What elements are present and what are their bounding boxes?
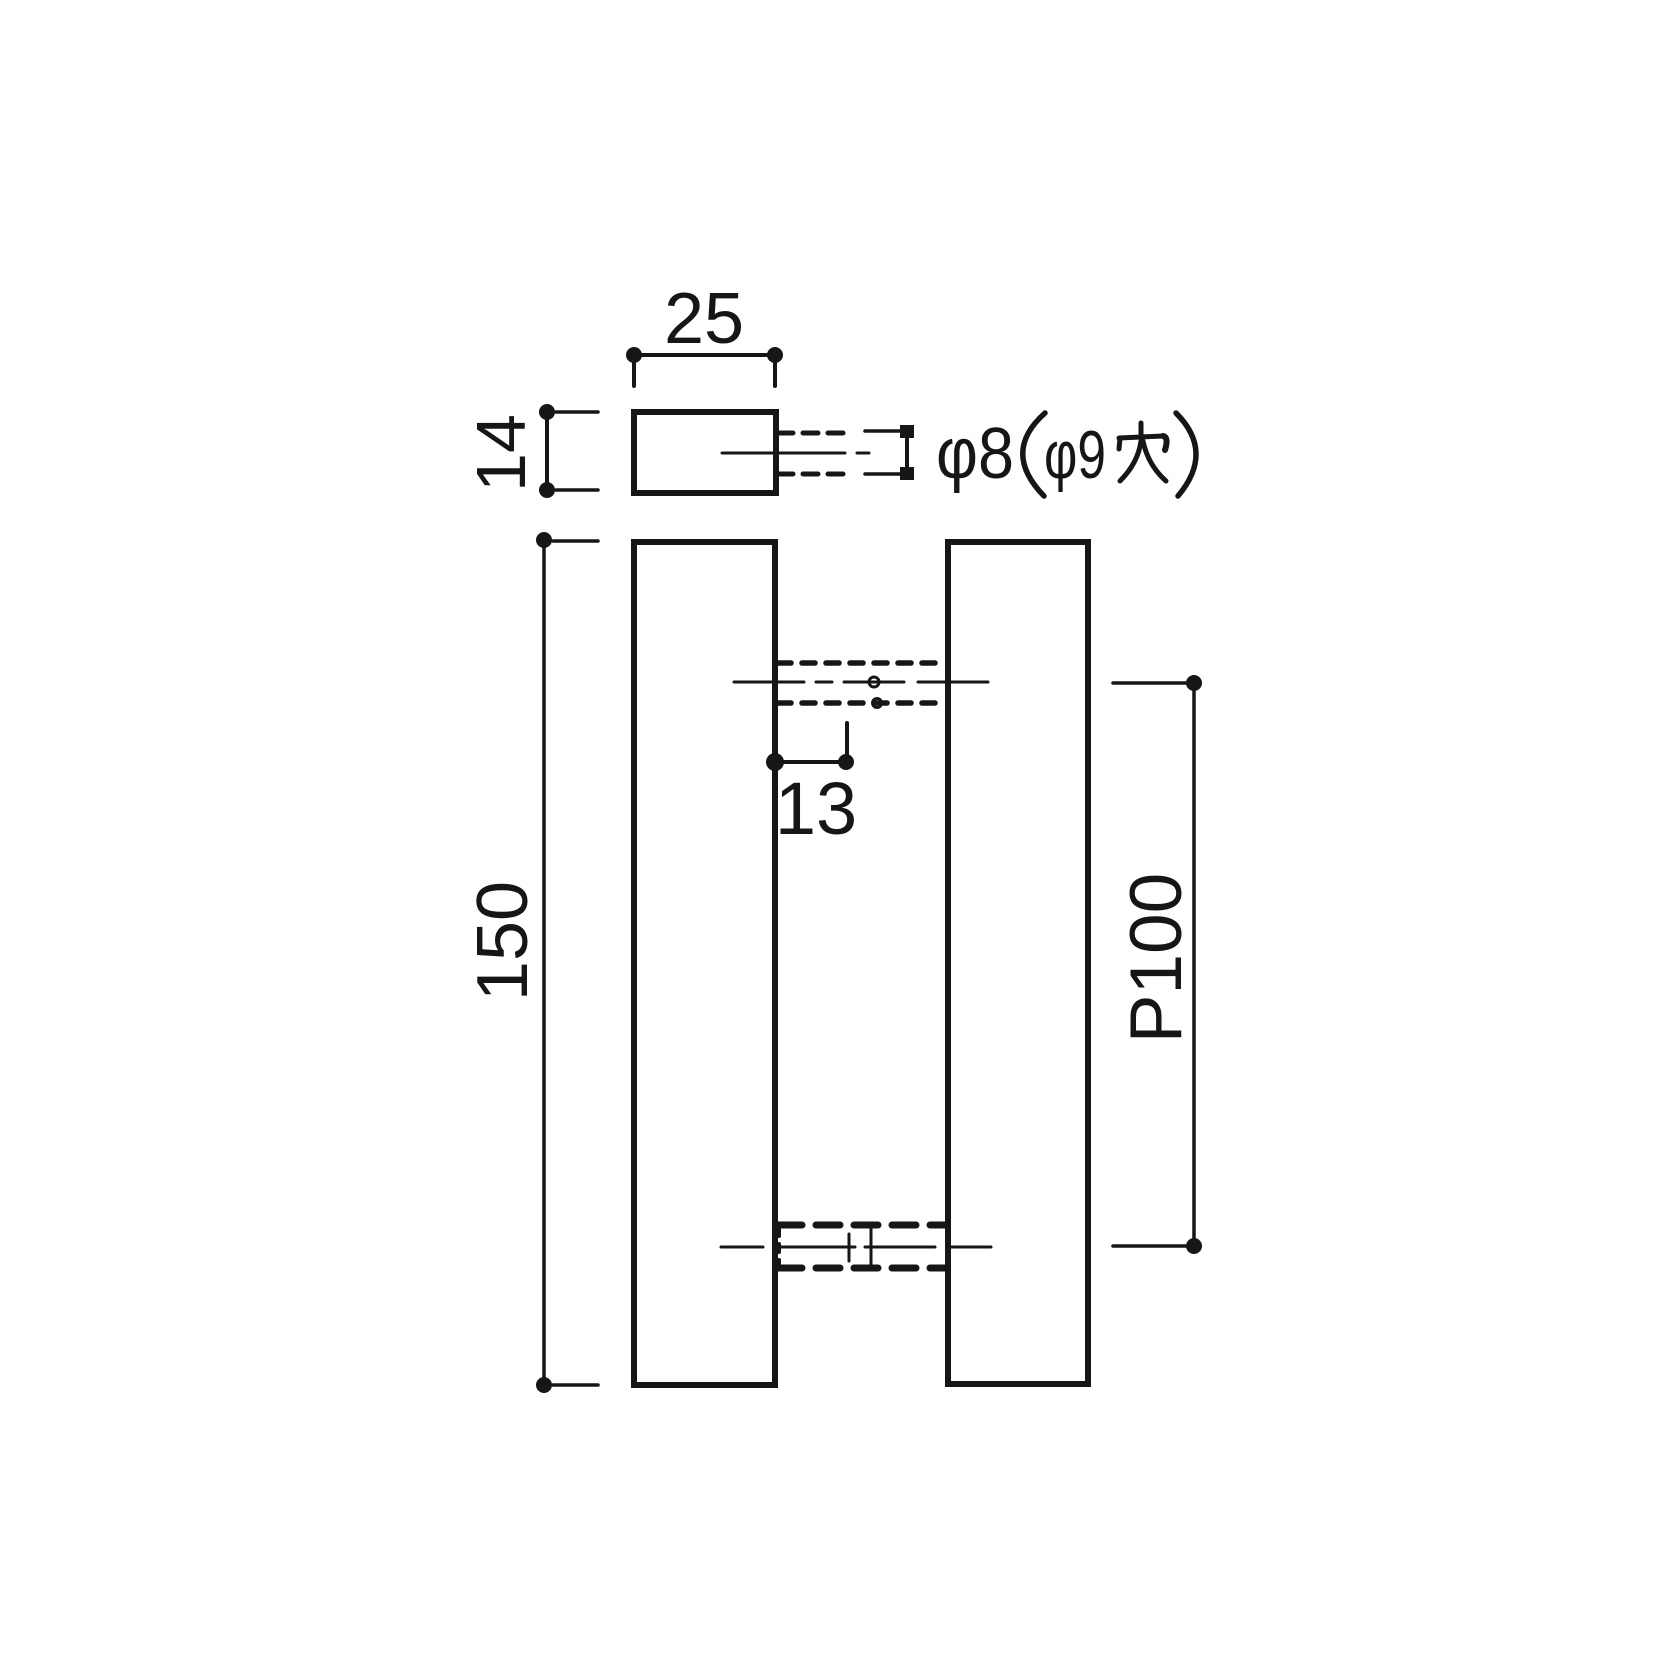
svg-text:φ9: φ9 [1044, 417, 1106, 493]
svg-text:13: 13 [775, 767, 857, 850]
svg-text:25: 25 [664, 279, 744, 359]
svg-text:P100: P100 [1116, 873, 1197, 1044]
svg-text:14: 14 [462, 414, 540, 492]
svg-text:150: 150 [463, 881, 543, 1001]
svg-text:φ8: φ8 [936, 414, 1014, 494]
